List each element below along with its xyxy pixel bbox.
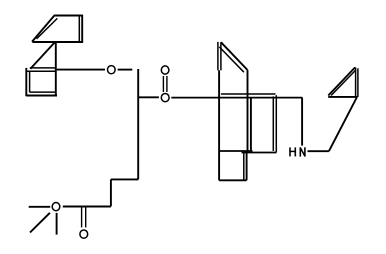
chain vertical bond C-C lower — [110, 179, 112, 206]
ring D right double vertical line 2 — [275, 95, 277, 152]
ring E right vertical — [246, 151, 248, 180]
chain horizontal bond C-C — [111, 178, 138, 180]
ring B top edge upper — [30, 67, 56, 69]
ring A top edge — [54, 15, 82, 17]
ester carbonyl O4=O5 double bond line 1 — [162, 76, 164, 92]
ring F hypotenuse inner (double bond) — [331, 70, 356, 96]
ester carbonyl O4=O5 double bond line 2 — [166, 76, 168, 92]
long bond ester O5 to ring C — [171, 97, 302, 99]
shared vertical bond ring A to ring B — [55, 41, 57, 96]
methyl bond left of O2 — [29, 206, 51, 208]
diagonal bond ring A to ring B — [30, 42, 55, 69]
methyl vertical bond below O2 — [56, 213, 58, 235]
ring C horizontal double bond upper — [221, 93, 276, 95]
ring A bottom edge — [32, 41, 83, 43]
atom O1 ether oxygen — [108, 66, 116, 74]
ring B bottom edge outer — [26, 95, 57, 97]
ring A left diagonal outer — [32, 15, 55, 42]
bond ester O2 to carbonyl and chain — [63, 206, 111, 208]
bond ring system to amine N — [301, 98, 303, 146]
ring C right vertical bond — [247, 70, 249, 151]
ring C diagonal inner (double bond) — [219, 47, 244, 72]
ring E inner right vertical — [243, 153, 245, 181]
ring F right edge double line 1 — [355, 67, 357, 97]
ring D right double vertical line 1 — [272, 96, 274, 151]
bond chain to ester O5 — [138, 96, 159, 98]
atom O5 ester oxygen of aryl ester — [161, 94, 169, 102]
bond ring B to ether O1 — [56, 69, 105, 71]
carbonyl C=O3 double bond line 1 — [81, 207, 83, 227]
ring E bottom edge — [219, 179, 247, 181]
ring D inner left vertical — [250, 98, 252, 151]
chain vertical bond C-C — [137, 69, 139, 179]
ring A left diagonal inner (double bond) — [37, 18, 58, 39]
ring B left edge inner (double bond) — [29, 71, 31, 93]
ring F right edge double line 2 — [357, 68, 359, 97]
atom O4 carbonyl oxygen of aryl ester — [161, 66, 169, 74]
ring A right edge outer — [81, 15, 83, 42]
ring F bottom edge — [328, 96, 357, 98]
methyl diagonal bond below O2 — [30, 213, 50, 233]
carbonyl C=O3 double bond line 2 — [85, 207, 87, 227]
ring B top edge lower — [26, 70, 56, 72]
bond N to methylene — [308, 150, 329, 152]
atom O3 carbonyl oxygen of methyl ester — [80, 230, 88, 238]
ring C left vertical bond — [218, 70, 220, 180]
ring C double vertical line 1 — [217, 42, 219, 70]
amine label H glyph — [289, 147, 296, 156]
diagonal bond methylene to ring F — [329, 97, 357, 151]
ring C double vertical line 2 — [220, 42, 222, 70]
ring C diagonal outer — [221, 42, 248, 70]
ring A right edge inner (double bond) — [78, 16, 80, 42]
bond ether O1 to chain — [118, 69, 133, 71]
amine label N glyph — [300, 147, 305, 156]
ring B bottom edge inner — [30, 91, 56, 93]
ring D bottom edge — [242, 152, 277, 154]
ring C bottom edge — [219, 150, 252, 152]
ring B left edge outer — [25, 68, 27, 96]
ring F hypotenuse outer — [328, 67, 355, 95]
atom O2 ester oxygen of methyl ester — [52, 203, 60, 211]
